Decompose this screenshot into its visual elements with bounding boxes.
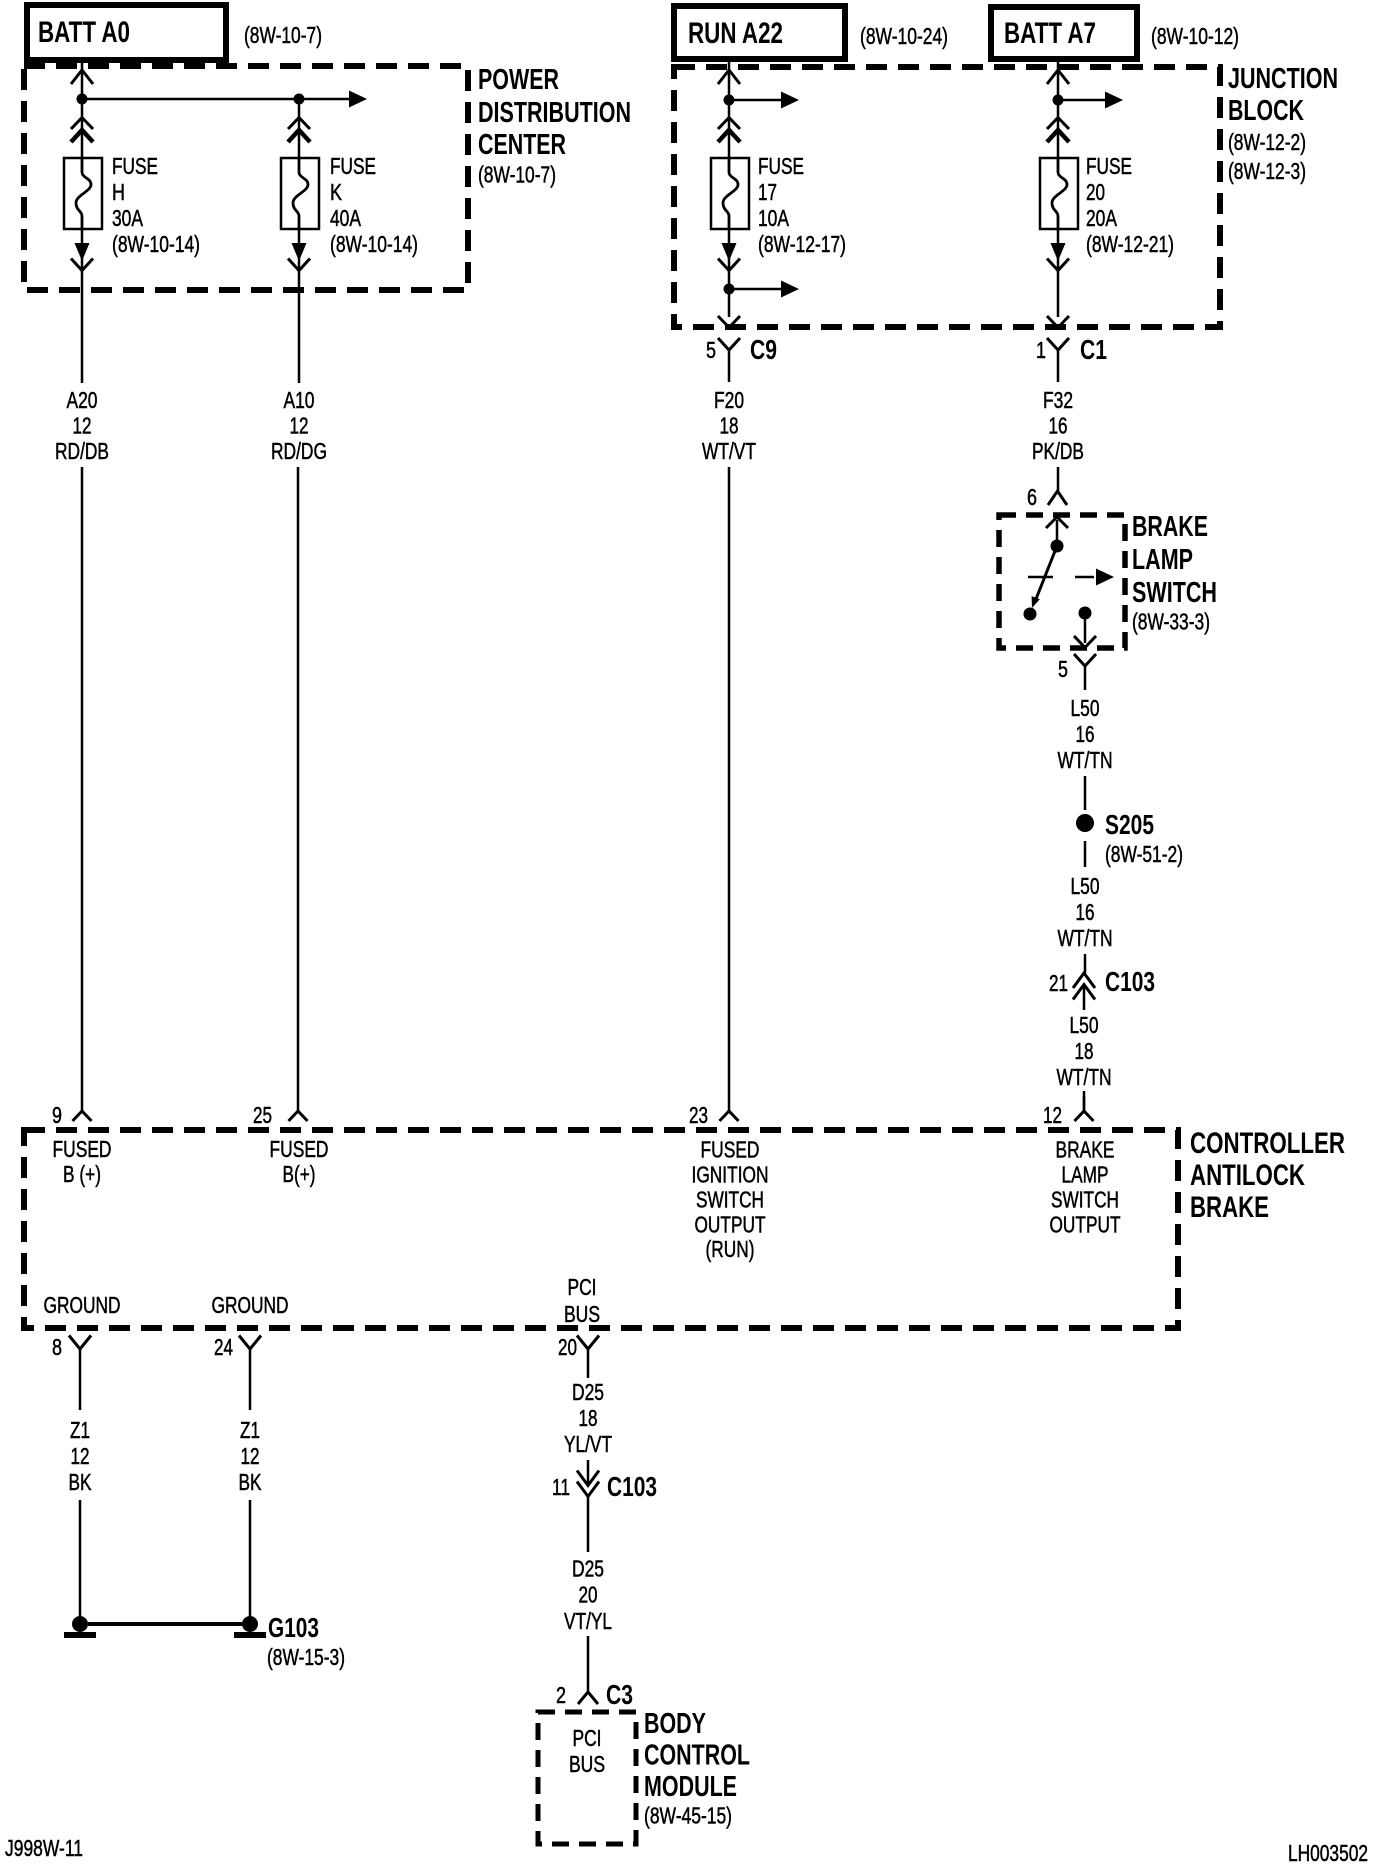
svg-text:WT/TN: WT/TN <box>1057 1064 1112 1090</box>
svg-text:CENTER: CENTER <box>478 129 566 161</box>
svg-text:(8W-12-17): (8W-12-17) <box>758 231 846 257</box>
wire F32 lower segment <box>1057 467 1060 491</box>
svg-text:FUSED: FUSED <box>701 1137 760 1163</box>
svg-text:25: 25 <box>253 1102 272 1128</box>
connector C3 pin 2 <box>578 1692 598 1704</box>
chevron terminal at JB entry (BATT) <box>1047 70 1069 84</box>
svg-text:FUSED: FUSED <box>270 1136 329 1162</box>
fuse H terminal arrows (bottom) <box>71 243 93 271</box>
ground symbol right (G103) <box>234 1616 266 1635</box>
svg-text:WT/VT: WT/VT <box>702 438 756 464</box>
svg-text:RD/DG: RD/DG <box>271 438 327 464</box>
wire A10 lower segment <box>297 467 300 1096</box>
wire L50 seg 3 <box>1084 841 1087 867</box>
wire L50 seg 4 <box>1084 954 1087 973</box>
svg-text:BUS: BUS <box>569 1751 605 1777</box>
junction block label <box>1228 63 1338 184</box>
svg-text:A10: A10 <box>284 387 315 413</box>
wire D25 seg 3 <box>587 1636 590 1692</box>
svg-text:(8W-15-3): (8W-15-3) <box>267 1644 345 1670</box>
junction node RUN feed <box>724 95 735 106</box>
svg-text:WT/TN: WT/TN <box>1058 925 1113 951</box>
svg-text:J998W-11: J998W-11 <box>5 1835 83 1861</box>
svg-text:RUN A22: RUN A22 <box>688 17 783 50</box>
svg-text:F20: F20 <box>714 387 744 413</box>
splice S205 <box>1076 814 1094 832</box>
fuse 17 labels <box>758 153 846 257</box>
svg-text:LH003502: LH003502 <box>1288 1840 1368 1866</box>
connector C103 pin 11 <box>577 1471 599 1553</box>
fuse K labels <box>330 153 418 257</box>
svg-text:(8W-51-2): (8W-51-2) <box>1105 841 1183 867</box>
svg-text:D25: D25 <box>572 1379 604 1405</box>
svg-text:30A: 30A <box>112 205 143 231</box>
wire below fuse 17 <box>728 229 731 317</box>
body control module box <box>538 1712 636 1844</box>
switch input wire <box>1056 520 1059 546</box>
svg-text:24: 24 <box>214 1334 233 1360</box>
wire L50 seg 2 <box>1084 776 1087 810</box>
pin 8 connector <box>69 1336 91 1411</box>
fuse 17 <box>711 158 749 229</box>
connector C1 <box>1047 338 1069 382</box>
node BATT A0 feed box <box>27 5 226 60</box>
svg-text:CONTROLLER: CONTROLLER <box>1190 1127 1345 1160</box>
svg-text:C1: C1 <box>1080 334 1107 365</box>
svg-text:VT/YL: VT/YL <box>564 1608 612 1634</box>
svg-text:BRAKE: BRAKE <box>1056 1137 1115 1163</box>
pin 9 connector at CAB <box>73 1096 92 1121</box>
pin 12 connector at CAB <box>1075 1096 1094 1121</box>
svg-text:20: 20 <box>579 1582 598 1608</box>
wire BATT A0 into PDC <box>81 60 84 99</box>
svg-text:(8W-33-3): (8W-33-3) <box>1132 609 1210 635</box>
svg-text:5: 5 <box>706 337 716 363</box>
connector C103 pin 21 <box>1073 973 1095 1010</box>
svg-text:12: 12 <box>73 413 92 439</box>
svg-text:FUSE: FUSE <box>1086 153 1132 179</box>
node BATT A7 feed box <box>991 7 1137 59</box>
chevron terminal at PDC entry <box>71 70 93 84</box>
svg-text:18: 18 <box>1075 1038 1094 1064</box>
svg-text:6: 6 <box>1027 484 1037 510</box>
branch arrow at BATT feed <box>1058 92 1123 109</box>
svg-text:21: 21 <box>1049 970 1068 996</box>
svg-text:FUSE: FUSE <box>330 153 376 179</box>
body control module label <box>644 1708 750 1829</box>
svg-text:(8W-10-12): (8W-10-12) <box>1151 23 1239 49</box>
wire to fuse 20 <box>1057 100 1060 158</box>
wire A20 lower segment <box>81 467 84 1096</box>
fuse 20 labels <box>1086 153 1174 257</box>
svg-text:Z1: Z1 <box>70 1417 90 1443</box>
svg-text:OUTPUT: OUTPUT <box>1050 1212 1121 1238</box>
svg-text:20: 20 <box>1086 179 1105 205</box>
switch output wire <box>1084 613 1087 643</box>
arrow leaving JB (BATT circuit) <box>1047 316 1069 328</box>
svg-text:5: 5 <box>1058 656 1068 682</box>
svg-text:FUSED: FUSED <box>53 1136 112 1162</box>
svg-text:BATT A7: BATT A7 <box>1004 17 1096 50</box>
node RUN A22 feed box <box>674 6 845 59</box>
svg-text:BK: BK <box>69 1469 92 1495</box>
svg-text:12: 12 <box>241 1443 260 1469</box>
svg-text:L50: L50 <box>1070 1012 1099 1038</box>
pin 5 connector below switch <box>1074 654 1096 690</box>
svg-text:BRAKE: BRAKE <box>1190 1191 1269 1224</box>
junction block box <box>674 67 1220 327</box>
svg-text:(8W-45-15): (8W-45-15) <box>644 1803 732 1829</box>
wire below fuse 20 <box>1057 229 1060 317</box>
svg-text:FUSE: FUSE <box>112 153 158 179</box>
svg-text:BATT A0: BATT A0 <box>38 16 130 49</box>
wire A10 upper segment <box>298 229 301 383</box>
svg-text:GROUND: GROUND <box>212 1292 289 1318</box>
switch input chevron <box>1046 517 1068 528</box>
svg-text:S205: S205 <box>1105 809 1154 840</box>
svg-text:20A: 20A <box>1086 205 1117 231</box>
actuation arrow <box>1028 569 1114 586</box>
svg-text:POWER: POWER <box>478 64 559 96</box>
svg-text:(8W-10-24): (8W-10-24) <box>860 23 948 49</box>
wire F20 lower segment <box>728 467 731 1096</box>
wire to fuse 17 <box>728 100 731 158</box>
svg-text:LAMP: LAMP <box>1132 544 1193 576</box>
svg-text:BLOCK: BLOCK <box>1228 95 1304 127</box>
arrow leaving switch <box>1074 636 1096 648</box>
svg-text:C103: C103 <box>1105 966 1155 997</box>
fuse H labels <box>112 153 200 257</box>
svg-text:11: 11 <box>552 1474 570 1500</box>
switch lever <box>1032 546 1057 608</box>
svg-text:L50: L50 <box>1071 695 1100 721</box>
svg-text:YL/VT: YL/VT <box>564 1431 612 1457</box>
svg-text:(8W-12-3): (8W-12-3) <box>1228 158 1306 184</box>
svg-text:40A: 40A <box>330 205 361 231</box>
svg-text:WT/TN: WT/TN <box>1058 747 1113 773</box>
wire Z1 right lower <box>249 1500 252 1616</box>
svg-text:BODY: BODY <box>644 1708 706 1740</box>
svg-text:PCI: PCI <box>568 1274 597 1300</box>
svg-text:D25: D25 <box>572 1556 604 1582</box>
junction node below fuse 17 <box>724 284 735 295</box>
svg-text:ANTILOCK: ANTILOCK <box>1190 1159 1305 1192</box>
wire to fuse H <box>81 99 84 158</box>
ground link wire <box>88 1622 242 1626</box>
fuse 17 terminal arrows (bottom) <box>718 243 740 271</box>
power distribution center box <box>24 66 468 290</box>
junction node BATT feed <box>1053 95 1064 106</box>
fuse 20 terminal chevrons (top) <box>1047 118 1069 143</box>
svg-text:(8W-10-14): (8W-10-14) <box>112 231 200 257</box>
svg-text:LAMP: LAMP <box>1062 1162 1109 1188</box>
pin 24 connector <box>239 1336 261 1411</box>
svg-text:16: 16 <box>1076 899 1095 925</box>
svg-text:SWITCH: SWITCH <box>1051 1187 1119 1213</box>
svg-text:B(+): B(+) <box>283 1161 316 1187</box>
wire L50 seg 5 <box>1083 1091 1086 1111</box>
svg-text:JUNCTION: JUNCTION <box>1228 63 1338 95</box>
controller antilock brake label <box>1190 1127 1345 1224</box>
svg-text:(8W-10-7): (8W-10-7) <box>478 162 556 188</box>
fuse K terminal chevrons (top) <box>288 118 310 143</box>
fuse K terminal arrows (bottom) <box>288 243 310 271</box>
svg-text:G103: G103 <box>268 1612 319 1643</box>
svg-text:(8W-12-21): (8W-12-21) <box>1086 231 1174 257</box>
fuse H terminal chevrons (top) <box>71 118 93 143</box>
svg-text:2: 2 <box>556 1682 566 1708</box>
svg-text:RD/DB: RD/DB <box>55 438 109 464</box>
svg-text:SWITCH: SWITCH <box>1132 577 1217 609</box>
wire RUN A22 into JB <box>728 59 731 100</box>
fuse 20 terminal arrows (bottom) <box>1047 243 1069 271</box>
fuse K <box>281 158 319 229</box>
branch arrow at RUN feed <box>729 92 799 109</box>
ground symbol left <box>64 1616 96 1635</box>
svg-text:17: 17 <box>758 179 777 205</box>
svg-text:18: 18 <box>720 413 739 439</box>
svg-text:H: H <box>112 179 125 205</box>
svg-text:(8W-10-7): (8W-10-7) <box>244 22 322 48</box>
pin 25 connector at CAB <box>289 1096 308 1121</box>
fuse 20 <box>1040 158 1078 229</box>
svg-text:L50: L50 <box>1071 873 1100 899</box>
switch open contact <box>1024 608 1037 621</box>
svg-text:GROUND: GROUND <box>44 1292 121 1318</box>
svg-text:20: 20 <box>558 1334 577 1360</box>
controller antilock brake box <box>24 1130 1178 1328</box>
svg-text:A20: A20 <box>67 387 98 413</box>
pin 23 connector at CAB <box>720 1096 739 1121</box>
switch output contact <box>1079 607 1092 620</box>
svg-text:Z1: Z1 <box>240 1417 260 1443</box>
svg-text:PCI: PCI <box>573 1725 602 1751</box>
svg-text:BUS: BUS <box>564 1301 600 1327</box>
svg-text:SWITCH: SWITCH <box>696 1187 764 1213</box>
pin 20 connector <box>577 1336 599 1379</box>
svg-text:MODULE: MODULE <box>644 1771 737 1803</box>
svg-text:18: 18 <box>579 1405 598 1431</box>
svg-text:PK/DB: PK/DB <box>1032 438 1084 464</box>
svg-text:OUTPUT: OUTPUT <box>695 1212 766 1238</box>
svg-text:12: 12 <box>290 413 309 439</box>
svg-text:23: 23 <box>689 1102 708 1128</box>
svg-text:BK: BK <box>239 1469 262 1495</box>
wire BATT A7 into JB <box>1057 59 1060 100</box>
svg-text:DISTRIBUTION: DISTRIBUTION <box>478 97 631 129</box>
svg-text:BRAKE: BRAKE <box>1132 511 1208 543</box>
svg-text:(8W-10-14): (8W-10-14) <box>330 231 418 257</box>
svg-text:B (+): B (+) <box>63 1161 101 1187</box>
brake lamp switch box <box>999 515 1125 648</box>
fuse H <box>64 158 102 229</box>
fuse 17 terminal chevrons (top) <box>718 118 740 143</box>
svg-text:C103: C103 <box>607 1471 657 1502</box>
brake lamp switch label <box>1132 511 1217 635</box>
junction node at fuse H feed <box>77 94 88 105</box>
wire Z1 left lower <box>79 1500 82 1616</box>
svg-text:10A: 10A <box>758 205 789 231</box>
pin 6 connector at brake lamp switch <box>1048 491 1067 505</box>
arrow leaving JB (RUN circuit) <box>718 316 740 328</box>
wire A20 upper segment <box>81 229 84 383</box>
svg-text:8: 8 <box>52 1334 62 1360</box>
svg-text:9: 9 <box>52 1102 62 1128</box>
junction node at fuse K feed <box>294 94 305 105</box>
svg-text:C3: C3 <box>606 1679 633 1710</box>
svg-text:(8W-12-2): (8W-12-2) <box>1228 129 1306 155</box>
svg-text:CONTROL: CONTROL <box>644 1740 750 1772</box>
wire D25 seg 2 <box>587 1460 590 1485</box>
svg-text:16: 16 <box>1049 413 1068 439</box>
svg-text:K: K <box>330 179 343 205</box>
wire to fuse K <box>298 99 301 158</box>
switch common contact <box>1051 540 1064 553</box>
svg-text:C9: C9 <box>750 334 777 365</box>
power distribution center label <box>478 64 631 188</box>
connector C9 <box>718 338 740 382</box>
svg-text:(RUN): (RUN) <box>706 1236 755 1262</box>
svg-text:16: 16 <box>1076 721 1095 747</box>
svg-text:12: 12 <box>71 1443 90 1469</box>
svg-text:F32: F32 <box>1043 387 1073 413</box>
branch arrow below fuse 17 <box>729 281 799 298</box>
svg-text:12: 12 <box>1043 1102 1062 1128</box>
chevron terminal at JB entry (RUN) <box>718 70 740 84</box>
svg-text:1: 1 <box>1036 337 1046 363</box>
bus wire inside PDC with arrow <box>82 91 367 108</box>
svg-text:FUSE: FUSE <box>758 153 804 179</box>
svg-text:IGNITION: IGNITION <box>692 1162 769 1188</box>
